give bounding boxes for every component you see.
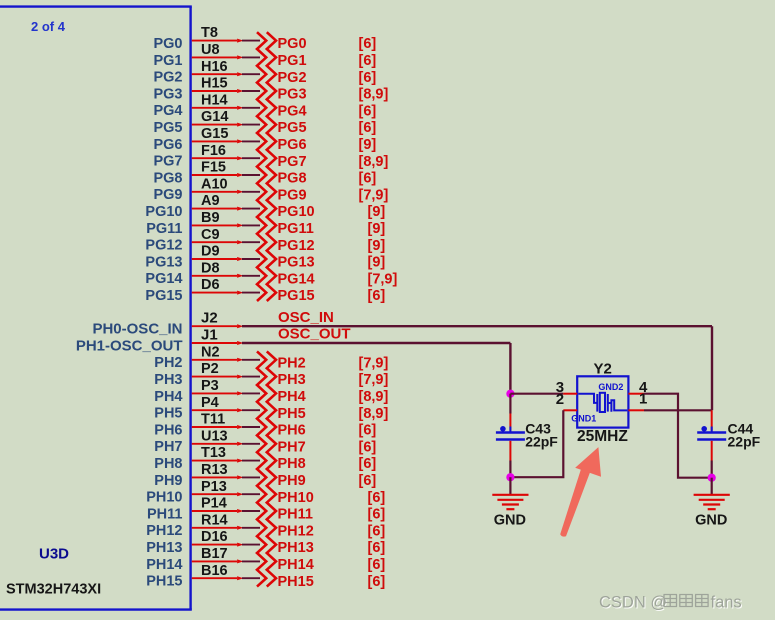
- svg-text:H16: H16: [201, 59, 228, 75]
- wire OSC_IN to Y2 pin 1: [644, 409, 712, 411]
- svg-text:F16: F16: [201, 143, 226, 159]
- C44 polarity dot: [701, 426, 707, 432]
- pin PH10 arrowhead: [237, 492, 243, 496]
- svg-text:P3: P3: [201, 378, 219, 394]
- svg-text:H15: H15: [201, 76, 228, 92]
- svg-text:PH8: PH8: [278, 456, 306, 472]
- svg-text:PG7: PG7: [153, 154, 182, 170]
- pin PH5 arrowhead: [237, 408, 243, 412]
- node C: junction dot C44 / pin4 branch / GND: [708, 474, 716, 482]
- svg-text:[9]: [9]: [359, 137, 377, 153]
- svg-text:PG0: PG0: [153, 36, 182, 52]
- svg-text:PG14: PG14: [145, 271, 182, 287]
- svg-text:PG3: PG3: [278, 87, 307, 103]
- GND right stem: [711, 478, 713, 495]
- C44 bottom plate: [697, 438, 726, 441]
- svg-text:PH6: PH6: [278, 423, 306, 439]
- pin PH6 arrowhead: [237, 425, 243, 429]
- svg-text:PG6: PG6: [278, 137, 307, 153]
- svg-text:[6]: [6]: [359, 439, 377, 455]
- svg-text:GND1: GND1: [571, 414, 596, 424]
- svg-text:[9]: [9]: [368, 221, 386, 237]
- svg-text:fans: fans: [711, 594, 742, 612]
- Y2 pin 1: [628, 409, 644, 411]
- pin PG2 line: [192, 73, 237, 75]
- svg-text:PG5: PG5: [278, 120, 307, 136]
- pin PH3 line: [192, 376, 237, 378]
- pin PG13 line: [192, 258, 237, 260]
- svg-text:PH15: PH15: [278, 574, 314, 590]
- pin PH1-OSC_OUT arrowhead: [237, 341, 243, 345]
- svg-text:PH11: PH11: [278, 507, 313, 523]
- svg-text:D8: D8: [201, 260, 220, 276]
- svg-text:PH13: PH13: [278, 540, 314, 556]
- pin PG4 arrowhead: [237, 106, 243, 110]
- svg-text:B9: B9: [201, 210, 220, 226]
- svg-text:PH0-OSC_IN: PH0-OSC_IN: [92, 321, 182, 338]
- pin PG12 arrowhead: [237, 240, 243, 244]
- svg-text:G15: G15: [201, 126, 228, 142]
- svg-text:OSC_IN: OSC_IN: [278, 309, 334, 326]
- pin PG7 arrowhead: [237, 156, 243, 160]
- svg-text:PH2: PH2: [278, 355, 306, 371]
- svg-text:STM32H743XI: STM32H743XI: [6, 581, 101, 597]
- svg-text:[8,9]: [8,9]: [359, 154, 389, 170]
- svg-text:PH12: PH12: [146, 523, 182, 539]
- C44 top plate: [697, 431, 726, 434]
- pin PG9 arrowhead: [237, 190, 243, 194]
- svg-text:F15: F15: [201, 160, 226, 176]
- pin PG11 arrowhead: [237, 223, 243, 227]
- svg-text:PG1: PG1: [153, 53, 182, 69]
- svg-text:[9]: [9]: [368, 238, 386, 254]
- GND left bar 3: [502, 503, 519, 505]
- wire PG11: [242, 224, 260, 226]
- svg-text:G14: G14: [201, 109, 228, 125]
- svg-text:[6]: [6]: [368, 574, 386, 590]
- pin PG1 arrowhead: [237, 55, 243, 59]
- svg-text:PH3: PH3: [154, 372, 182, 388]
- wire OSC_OUT vertical: [509, 343, 511, 394]
- wire OSC_IN vertical: [711, 326, 713, 410]
- Y2 pin 2: [563, 409, 577, 411]
- svg-text:J1: J1: [201, 326, 218, 343]
- svg-text:[8,9]: [8,9]: [359, 389, 389, 405]
- pin PH6 line: [192, 426, 237, 428]
- svg-text:C9: C9: [201, 227, 220, 243]
- wire node A down to C43: [509, 394, 511, 414]
- svg-text:D9: D9: [201, 244, 220, 260]
- pin PH14 arrowhead: [237, 559, 243, 563]
- wire PH14: [242, 560, 260, 562]
- svg-text:[7,9]: [7,9]: [359, 187, 389, 203]
- capacitor C43 22pF: [496, 414, 558, 461]
- block right edge: [189, 7, 191, 610]
- GND right bar 1: [694, 494, 730, 496]
- GND left bar 1: [492, 494, 528, 496]
- pin PG15 arrowhead: [237, 291, 243, 295]
- svg-text:PG4: PG4: [278, 103, 307, 119]
- pin PG15 line: [192, 292, 237, 294]
- svg-text:PH10: PH10: [146, 490, 182, 506]
- Y2 crystal glyph: [578, 393, 627, 412]
- pin PH10 line: [192, 493, 237, 495]
- harness-entry chevrons PG0..PG15: [257, 32, 276, 301]
- pin PH0-OSC_IN line: [192, 325, 237, 327]
- svg-text:[6]: [6]: [359, 53, 377, 69]
- svg-text:PG7: PG7: [278, 154, 307, 170]
- Y2 pin 4: [628, 393, 644, 395]
- GND right bar 2: [699, 499, 725, 501]
- svg-text:PG5: PG5: [153, 120, 182, 136]
- wire PG0: [242, 40, 260, 42]
- svg-text:[6]: [6]: [359, 70, 377, 86]
- wire PG4: [242, 107, 260, 109]
- svg-text:PG4: PG4: [153, 103, 182, 119]
- pin PG2 arrowhead: [237, 72, 243, 76]
- C43 top tick: [509, 427, 511, 433]
- svg-text:PH6: PH6: [154, 422, 182, 438]
- svg-text:A9: A9: [201, 193, 220, 209]
- pin PH9 line: [192, 476, 237, 478]
- pin PG8 arrowhead: [237, 173, 243, 177]
- pin PH13 line: [192, 544, 237, 546]
- wire PG6: [242, 140, 260, 142]
- pin PH14 line: [192, 560, 237, 562]
- C44 top pin (red): [711, 410, 713, 430]
- svg-text:[7,9]: [7,9]: [359, 355, 389, 371]
- svg-text:PH12: PH12: [278, 523, 314, 539]
- wire OSC_IN horizontal: [242, 325, 712, 327]
- svg-text:PG0: PG0: [278, 36, 307, 52]
- pin PH11 arrowhead: [237, 509, 243, 513]
- svg-text:PG13: PG13: [278, 255, 315, 271]
- svg-text:PG8: PG8: [278, 171, 307, 187]
- svg-text:PG9: PG9: [278, 187, 307, 203]
- wire PG13: [242, 258, 260, 260]
- svg-text:D6: D6: [201, 277, 220, 293]
- wire PH9: [242, 476, 260, 478]
- pin PH7 arrowhead: [237, 442, 243, 446]
- crystal Y2: [556, 360, 648, 445]
- svg-text:[6]: [6]: [368, 557, 386, 573]
- pin PH0-OSC_IN arrowhead: [237, 324, 243, 328]
- pin PG0 arrowhead: [237, 39, 243, 43]
- svg-text:[9]: [9]: [368, 204, 386, 220]
- svg-text:U8: U8: [201, 42, 220, 58]
- wire PH13: [242, 544, 260, 546]
- svg-text:P2: P2: [201, 361, 219, 377]
- wire PG8: [242, 174, 260, 176]
- svg-text:[6]: [6]: [359, 456, 377, 472]
- svg-text:PG1: PG1: [278, 53, 307, 69]
- pin PG12 line: [192, 241, 237, 243]
- wire PH8: [242, 460, 260, 462]
- pin PH12 line: [192, 527, 237, 529]
- GND right bar 4: [708, 508, 716, 510]
- svg-text:PH7: PH7: [278, 439, 306, 455]
- svg-text:[9]: [9]: [368, 255, 386, 271]
- pin PH5 line: [192, 409, 237, 411]
- pin PH7 line: [192, 443, 237, 445]
- pin PH12 arrowhead: [237, 526, 243, 530]
- wire PH15: [242, 577, 260, 579]
- pin PH15 line: [192, 577, 237, 579]
- pin PG0 line: [192, 40, 237, 42]
- ground GND right: [694, 478, 730, 529]
- C44 top tick: [711, 427, 713, 433]
- svg-text:PH5: PH5: [154, 406, 182, 422]
- wire PG9: [242, 191, 260, 193]
- svg-text:PH8: PH8: [154, 456, 182, 472]
- svg-text:U13: U13: [201, 428, 228, 444]
- wire PH7: [242, 443, 260, 445]
- svg-text:PG11: PG11: [278, 221, 314, 237]
- wire PH10: [242, 493, 260, 495]
- svg-text:2: 2: [556, 391, 564, 408]
- svg-text:PG2: PG2: [153, 70, 182, 86]
- svg-text:[7,9]: [7,9]: [359, 372, 389, 388]
- wire PH5: [242, 409, 260, 411]
- svg-text:[6]: [6]: [368, 507, 386, 523]
- Y2 body box: [577, 376, 628, 427]
- svg-text:PH9: PH9: [278, 473, 306, 489]
- svg-text:R14: R14: [201, 512, 228, 528]
- pin PG9 line: [192, 191, 237, 193]
- svg-text:GND: GND: [695, 513, 727, 529]
- wire C43 bottom to node B: [509, 461, 511, 478]
- svg-text:PH14: PH14: [278, 557, 314, 573]
- svg-text:22pF: 22pF: [525, 433, 558, 449]
- pin PG7 line: [192, 157, 237, 159]
- svg-text:PG12: PG12: [278, 238, 315, 254]
- svg-text:[8,9]: [8,9]: [359, 406, 389, 422]
- svg-text:PG10: PG10: [278, 204, 315, 220]
- svg-text:H14: H14: [201, 92, 228, 108]
- svg-text:CSDN @: CSDN @: [599, 594, 667, 612]
- svg-text:PG6: PG6: [153, 137, 182, 153]
- block bottom edge: [0, 608, 192, 610]
- wire PH2: [242, 359, 260, 361]
- wire PH12: [242, 527, 260, 529]
- capacitor C44 22pF: [697, 410, 760, 460]
- Y2 pin 3: [563, 393, 577, 395]
- pin PG13 arrowhead: [237, 257, 243, 261]
- svg-text:N2: N2: [201, 344, 220, 360]
- wire PH6: [242, 426, 260, 428]
- svg-text:B17: B17: [201, 546, 228, 562]
- C43 polarity dot: [500, 426, 506, 432]
- wire PG5: [242, 124, 260, 126]
- pin PH4 arrowhead: [237, 391, 243, 395]
- svg-text:OSC_OUT: OSC_OUT: [278, 326, 351, 343]
- annotation arrow (salmon) pointing at 25MHZ: [560, 447, 601, 537]
- svg-text:PG15: PG15: [145, 288, 182, 304]
- wire PG12: [242, 241, 260, 243]
- pin PG4 line: [192, 107, 237, 109]
- pin PG11 line: [192, 224, 237, 226]
- ground GND left: [492, 477, 528, 528]
- C43 bottom pin (red): [509, 441, 511, 461]
- pin PG8 line: [192, 174, 237, 176]
- pin PH11 line: [192, 510, 237, 512]
- pin PG10 line: [192, 208, 237, 210]
- svg-text:[6]: [6]: [359, 120, 377, 136]
- svg-text:GND: GND: [494, 513, 526, 529]
- GND left bar 4: [506, 508, 514, 510]
- wire PH3: [242, 376, 260, 378]
- wire node A to Y2 pin 3: [510, 393, 563, 395]
- pin PG3 arrowhead: [237, 89, 243, 93]
- pin PH8 arrowhead: [237, 459, 243, 463]
- pin PG6 arrowhead: [237, 139, 243, 143]
- svg-text:PH13: PH13: [146, 540, 182, 556]
- svg-text:B16: B16: [201, 563, 228, 579]
- svg-text:T11: T11: [201, 412, 225, 428]
- wire PH11: [242, 510, 260, 512]
- pin PH3 arrowhead: [237, 375, 243, 379]
- pin PG3 line: [192, 90, 237, 92]
- pin PH4 line: [192, 392, 237, 394]
- svg-text:[6]: [6]: [359, 36, 377, 52]
- svg-text:T8: T8: [201, 25, 218, 41]
- svg-text:25MHZ: 25MHZ: [577, 428, 628, 445]
- svg-text:[6]: [6]: [368, 540, 386, 556]
- svg-text:2 of 4: 2 of 4: [31, 19, 66, 34]
- svg-text:P14: P14: [201, 496, 227, 512]
- wire C44 bottom to node C: [711, 461, 713, 478]
- svg-text:PH4: PH4: [154, 389, 182, 405]
- svg-text:PH5: PH5: [278, 406, 306, 422]
- C44 bottom pin (red): [711, 441, 713, 461]
- svg-text:PG15: PG15: [278, 288, 315, 304]
- svg-text:PG11: PG11: [146, 221, 182, 237]
- svg-text:A10: A10: [201, 176, 228, 192]
- svg-text:PH3: PH3: [278, 372, 306, 388]
- pin PH8 line: [192, 460, 237, 462]
- svg-text:PG9: PG9: [153, 187, 182, 203]
- svg-text:PH1-OSC_OUT: PH1-OSC_OUT: [76, 337, 183, 354]
- wire Y2 pin 2 branch down: [510, 410, 563, 477]
- svg-text:22pF: 22pF: [728, 433, 761, 449]
- pin PH13 arrowhead: [237, 543, 243, 547]
- svg-text:[6]: [6]: [359, 423, 377, 439]
- wire PG3: [242, 90, 260, 92]
- wire PH4: [242, 392, 260, 394]
- pin PG1 line: [192, 56, 237, 58]
- svg-text:GND2: GND2: [598, 382, 623, 392]
- wire PG2: [242, 73, 260, 75]
- svg-text:P13: P13: [201, 479, 227, 495]
- svg-text:PH11: PH11: [147, 506, 182, 522]
- svg-text:PH14: PH14: [146, 557, 182, 573]
- svg-text:[6]: [6]: [359, 171, 377, 187]
- GND left stem: [509, 477, 511, 494]
- svg-text:D16: D16: [201, 529, 228, 545]
- pin PG14 arrowhead: [237, 274, 243, 278]
- pin PG5 line: [192, 124, 237, 126]
- node B: junction dot C43 / pin2 branch / GND: [506, 473, 514, 481]
- wire OSC_OUT horizontal: [242, 342, 510, 344]
- GND right bar 3: [703, 503, 720, 505]
- GND left bar 2: [497, 499, 523, 501]
- svg-text:PH2: PH2: [154, 355, 182, 371]
- svg-text:J2: J2: [201, 310, 218, 327]
- watermark CSDN @xuxiake fans: [599, 594, 743, 613]
- svg-text:[7,9]: [7,9]: [368, 271, 398, 287]
- svg-text:PG10: PG10: [145, 204, 182, 220]
- pin PH2 line: [192, 359, 237, 361]
- wire PG7: [242, 157, 260, 159]
- pin PH9 arrowhead: [237, 475, 243, 479]
- svg-text:[8,9]: [8,9]: [359, 87, 389, 103]
- svg-text:PH9: PH9: [154, 473, 182, 489]
- svg-text:PG3: PG3: [153, 86, 182, 102]
- svg-text:PG8: PG8: [153, 170, 182, 186]
- svg-text:PG2: PG2: [278, 70, 307, 86]
- pin PG6 line: [192, 140, 237, 142]
- svg-text:Y2: Y2: [594, 360, 612, 377]
- pin PH15 arrowhead: [237, 576, 243, 580]
- svg-text:[6]: [6]: [368, 288, 386, 304]
- C43 top pin (red): [509, 414, 511, 431]
- svg-text:[6]: [6]: [368, 523, 386, 539]
- wire PG14: [242, 275, 260, 277]
- wire PG15: [242, 292, 260, 294]
- svg-text:U3D: U3D: [39, 546, 69, 563]
- block top edge: [0, 5, 192, 7]
- svg-text:PG12: PG12: [145, 238, 182, 254]
- svg-text:[6]: [6]: [368, 490, 386, 506]
- pin PH2 arrowhead: [237, 358, 243, 362]
- C43 top plate: [496, 431, 525, 434]
- op-amp-style component body U3D (STM32H743XI sheet-part outline): [0, 7, 192, 610]
- svg-text:P4: P4: [201, 395, 219, 411]
- C43 bottom plate: [496, 438, 525, 441]
- wire PG1: [242, 56, 260, 58]
- svg-text:T13: T13: [201, 445, 226, 461]
- wire PG10: [242, 208, 260, 210]
- svg-text:PH7: PH7: [154, 439, 182, 455]
- pin PH1-OSC_OUT line: [192, 342, 237, 344]
- node A: junction dot OSC_OUT / C43 / Y2.3: [506, 390, 514, 398]
- svg-text:[6]: [6]: [359, 103, 377, 119]
- svg-text:PH15: PH15: [146, 574, 182, 590]
- svg-text:[6]: [6]: [359, 473, 377, 489]
- svg-text:R13: R13: [201, 462, 228, 478]
- pin PG10 arrowhead: [237, 207, 243, 211]
- pin PG14 line: [192, 275, 237, 277]
- svg-text:PG14: PG14: [278, 271, 315, 287]
- harness-entry chevrons PH2..PH15: [257, 351, 276, 586]
- pin PG5 arrowhead: [237, 123, 243, 127]
- wire Y2 pin 4 branch to right: [644, 394, 712, 478]
- svg-text:PG13: PG13: [145, 254, 182, 270]
- svg-text:PH4: PH4: [278, 389, 306, 405]
- svg-text:PH10: PH10: [278, 490, 314, 506]
